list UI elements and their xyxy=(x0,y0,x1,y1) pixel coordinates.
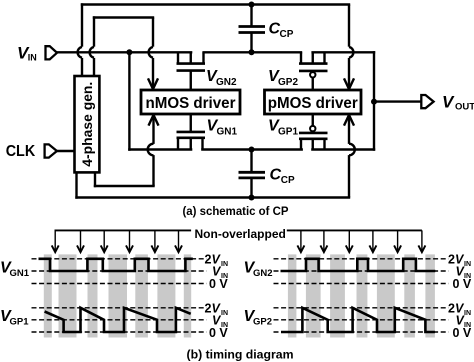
dashed level lines Vgn2 row xyxy=(274,259,449,284)
hop phase1-left over Vin wire xyxy=(78,47,82,58)
dashed level lines Vgp1 row xyxy=(32,308,207,332)
hop phase2-left over Vin wire xyxy=(90,47,94,58)
junction dot Ccp top at Vin wire xyxy=(249,49,255,55)
waveform Vgn1 xyxy=(39,259,193,271)
label Vgn1 xyxy=(207,118,238,138)
wire CLK xyxy=(57,150,75,152)
dashed level lines Vgn1 row xyxy=(32,259,207,284)
transistor M1 nMOS pass top xyxy=(177,52,206,90)
capacitor Ccp bottom xyxy=(239,150,266,198)
hop phase4 over lower Vin wire xyxy=(349,144,355,156)
label Vgp2 xyxy=(268,68,298,88)
wire output vertical xyxy=(373,51,375,151)
hop phase2-right over Vin wire xyxy=(149,47,153,58)
svg-text:nMOS driver: nMOS driver xyxy=(146,95,236,112)
wire Vin horizontal xyxy=(57,51,376,53)
node Vin-lower branch xyxy=(128,52,130,150)
svg-text:OUT: OUT xyxy=(455,102,474,113)
svg-text:GN1: GN1 xyxy=(10,268,30,279)
box pMOS driver xyxy=(265,90,362,114)
svg-text:0 V: 0 V xyxy=(453,326,472,340)
label Ccp bottom xyxy=(270,167,296,187)
junction dot Vin branch xyxy=(126,49,132,55)
label Ccp top xyxy=(269,21,294,41)
svg-text:GN2: GN2 xyxy=(253,268,273,279)
timing diagram shading stripes left group xyxy=(44,254,191,337)
label Vgn2 xyxy=(206,68,237,88)
wire phase4 outer bottom xyxy=(75,116,350,199)
wire phase1 outer top xyxy=(81,3,350,88)
level labels right group Vgp2 xyxy=(448,301,472,340)
label Vgn2 row xyxy=(244,260,273,280)
junction dot Ccp bottom at phase wire xyxy=(249,195,255,201)
arrow into nMOS driver bottom xyxy=(149,115,159,126)
svg-text:CP: CP xyxy=(281,175,295,186)
port Vout xyxy=(421,95,433,108)
waveform Vgp1 xyxy=(45,308,191,332)
level labels left group Vgp1 xyxy=(205,301,229,340)
svg-text:IN: IN xyxy=(28,52,37,62)
transistor M3 nMOS pass bottom xyxy=(177,114,206,150)
junction dot Ccp top at phase wire xyxy=(249,2,255,8)
port Vin xyxy=(46,46,58,59)
port CLK xyxy=(45,144,57,157)
svg-text:GP1: GP1 xyxy=(278,127,298,138)
wire phase2 inner top xyxy=(93,16,154,88)
label Vgp2 row xyxy=(244,308,273,328)
svg-text:C: C xyxy=(270,167,282,184)
svg-text:IN: IN xyxy=(221,310,228,317)
svg-text:(a) schematic of CP: (a) schematic of CP xyxy=(183,204,289,218)
svg-text:GN2: GN2 xyxy=(216,77,237,88)
dashed level lines Vgp2 row xyxy=(274,308,449,332)
wire output horizontal xyxy=(374,100,421,102)
label Vgp1 row xyxy=(0,308,29,328)
junction dot output xyxy=(371,99,377,105)
svg-text:4-phase gen.: 4-phase gen. xyxy=(79,82,95,167)
svg-text:0 V: 0 V xyxy=(209,326,228,340)
svg-text:0 V: 0 V xyxy=(209,277,228,291)
svg-text:pMOS driver: pMOS driver xyxy=(268,95,358,112)
level labels right group Vgn2 xyxy=(448,252,472,291)
label Vgn1 row xyxy=(0,260,30,280)
level labels left group Vgn1 xyxy=(205,252,229,291)
svg-text:0 V: 0 V xyxy=(453,277,472,291)
waveform Vgn2 xyxy=(281,259,436,271)
non-overlap marker line left xyxy=(55,229,192,231)
arrow into nMOS driver top xyxy=(148,78,158,89)
transistor M4 pMOS pass bottom xyxy=(299,114,328,150)
hop phase1-right over Vin wire xyxy=(349,47,353,58)
svg-text:V: V xyxy=(442,92,455,111)
box 4-phase generator xyxy=(75,76,100,172)
arrow into pMOS driver bottom xyxy=(344,115,354,126)
svg-text:GN1: GN1 xyxy=(217,127,238,138)
transistor M2 pMOS pass top xyxy=(299,52,328,90)
label Vin xyxy=(17,43,37,62)
timing diagram shading stripes right group xyxy=(288,254,435,337)
wire Vin lower horizontal xyxy=(128,148,375,150)
svg-text:GP2: GP2 xyxy=(253,317,272,328)
hop phase3 over lower Vin wire xyxy=(148,144,154,156)
arrow into pMOS driver top xyxy=(344,78,354,89)
svg-text:Non-overlapped: Non-overlapped xyxy=(195,227,286,241)
non-overlap marker line right xyxy=(287,229,422,231)
svg-text:(b) timing diagram: (b) timing diagram xyxy=(187,348,294,362)
svg-text:CLK: CLK xyxy=(6,143,36,160)
svg-text:CP: CP xyxy=(280,29,294,40)
capacitor Ccp top xyxy=(239,5,266,53)
non-overlap arrows right xyxy=(297,230,425,252)
non-overlap arrows left xyxy=(52,230,182,252)
label Vout xyxy=(442,92,474,112)
svg-text:GP2: GP2 xyxy=(278,77,298,88)
svg-text:IN: IN xyxy=(221,261,228,268)
svg-text:IN: IN xyxy=(464,261,471,268)
junction dot Ccp bottom at lower Vin wire xyxy=(249,147,255,153)
wire phase3 inner bottom xyxy=(94,116,155,187)
svg-text:GP1: GP1 xyxy=(10,317,30,328)
label Vgp1 xyxy=(268,118,298,138)
waveform Vgp2 xyxy=(281,308,435,332)
box nMOS driver xyxy=(141,90,240,114)
svg-text:IN: IN xyxy=(464,310,471,317)
